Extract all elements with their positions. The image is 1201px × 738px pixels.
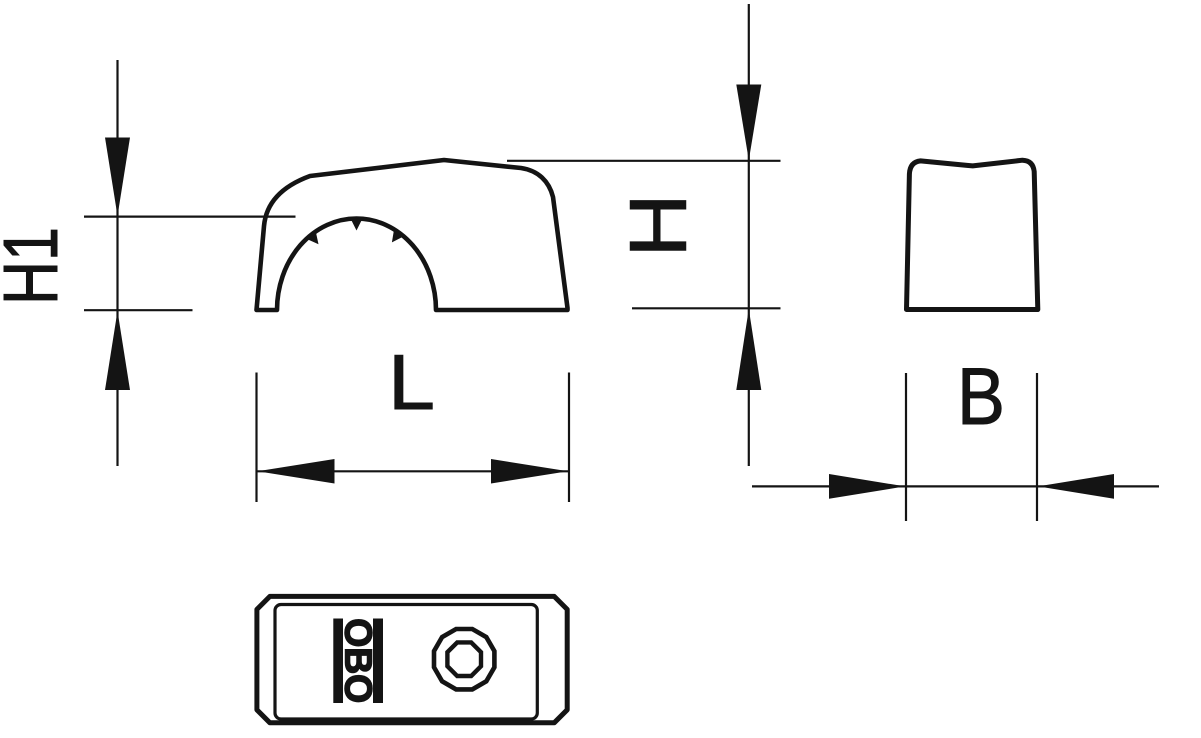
barb right [392,229,404,242]
B dimension line [752,485,1159,487]
H up arrow [736,309,761,390]
barb center [351,219,363,231]
B left arrow [829,474,905,499]
svg-text:B: B [957,352,1005,442]
H1 dimension vertical line [116,60,118,466]
H bottom tick [632,307,781,309]
barb left [306,231,318,244]
OBO logo right bar [373,619,383,704]
screw hex socket outer ring [434,629,494,689]
clip end view outline [907,160,1038,309]
H down arrow [736,85,761,161]
H1 down arrow [105,138,130,217]
OBO logo left bar [333,619,343,704]
H1 bottom tick [84,309,193,311]
B left extension line [905,373,907,521]
clip side view outline [257,160,568,310]
L left extension line [255,373,257,503]
H1 top tick [84,216,296,218]
L right extension line [568,373,570,503]
bottom view outer outline [257,596,567,722]
svg-text:H: H [614,194,704,258]
H dimension vertical line [748,4,750,466]
screw hex socket inner ring [447,642,481,676]
svg-text:L: L [388,338,435,426]
svg-text:OBO: OBO [337,618,379,703]
B right extension line [1036,373,1038,521]
L right arrow [491,459,568,484]
L left arrow [258,459,335,484]
L dimension line [257,470,570,472]
bottom view inner contour [275,605,537,720]
H1 up arrow [105,311,130,390]
svg-text:H1: H1 [0,227,74,305]
H top extension line [507,160,781,162]
B right arrow [1038,474,1114,499]
